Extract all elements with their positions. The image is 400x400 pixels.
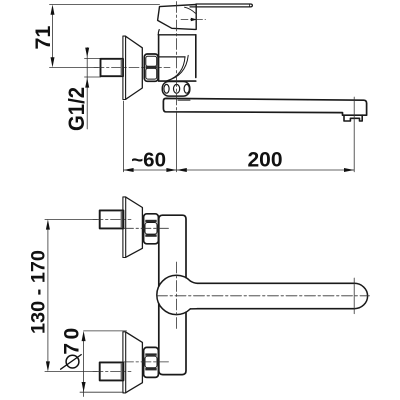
ball-to-spout fillet top	[190, 281, 197, 283]
neck/body separation line	[158, 34, 196, 36]
dimension 71 line	[52, 10, 54, 62]
cartridge body (upper view)	[159, 35, 196, 81]
neck below cap	[157, 30, 160, 35]
arrow right (~60)	[166, 168, 176, 172]
top nut facet band upper	[145, 220, 156, 222]
dim 130-170 arrow up	[46, 219, 50, 229]
top nut facet middle	[145, 223, 157, 235]
dimension 130-170 line	[47, 225, 49, 366]
bottom pipe center line	[45, 371, 97, 373]
G1/2 arrow down (to pipe top)	[85, 48, 89, 58]
pipe end band (upper view)	[121, 59, 124, 75]
pipe end band (top connection)	[121, 211, 124, 228]
top hex nut	[144, 214, 159, 244]
handle small arrow	[191, 18, 197, 22]
top escutcheon cone	[126, 197, 143, 257]
extension line pipe center (for dim 71)	[50, 67, 99, 69]
spout (upper view, side)	[163, 98, 366, 115]
arrow right (200)	[344, 168, 354, 172]
wall pipe G1/2 (upper view)	[101, 59, 124, 76]
bottom nut facet band upper	[145, 353, 156, 355]
svg-text:~60: ~60	[131, 149, 166, 172]
handle cap	[158, 5, 197, 30]
lever end tick	[249, 4, 251, 7]
svg-text:G1/2: G1/2	[64, 87, 89, 131]
dimension 71 arrow down	[51, 57, 55, 67]
collar ellipse right	[184, 84, 189, 93]
collar ellipse middle	[174, 84, 180, 93]
svg-text:70: 70	[61, 324, 84, 354]
hex nut (upper view)	[144, 54, 158, 81]
spout center line (dash-dot)	[157, 295, 370, 297]
dimension line ~60 / 200	[123, 169, 354, 171]
body center line vertical (dash-dot)	[175, 262, 177, 330]
bottom nut facet middle	[145, 356, 157, 368]
collar ring with screws (upper view)	[162, 82, 190, 97]
lever handle bar	[190, 4, 252, 7]
svg-text:71: 71	[31, 26, 55, 50]
arrow left (200)	[177, 168, 187, 172]
faucet center line vertical (dash-dot)	[176, 2, 178, 116]
top escutcheon flange	[123, 197, 126, 258]
ball joint (front view)	[157, 275, 190, 314]
extension line wall (x=123.4)	[122, 101, 124, 172]
hex nut middle band	[146, 66, 157, 68]
top connection: wall pipe	[100, 210, 124, 228]
top nut facet band lower	[145, 234, 156, 236]
diameter symbol circle	[66, 355, 79, 368]
ball-to-spout fillet bottom	[190, 308, 197, 310]
handle center dash mark	[181, 19, 206, 21]
spout end cap	[354, 283, 367, 308]
spout joint line	[178, 99, 190, 101]
escutcheon flange (upper view)	[123, 36, 126, 99]
body inner horizontal line	[159, 56, 185, 58]
svg-text:200: 200	[247, 148, 282, 171]
diameter symbol slash	[61, 355, 82, 370]
bottom escutcheon flange	[123, 332, 126, 393]
extension line spout end (x=354.2)	[353, 97, 355, 172]
bottom connection: wall pipe	[100, 362, 124, 380]
hex nut facets	[146, 56, 157, 66]
faucet body (front view)	[163, 215, 186, 277]
dim 130-170 arrow down	[46, 361, 50, 371]
body right lower / bottom / left lower	[159, 304, 186, 375]
body left upper	[159, 215, 163, 286]
arrow left (~60)	[123, 168, 133, 172]
G1/2 arrow up (to pipe bottom)	[85, 78, 89, 88]
bottom nut facet band lower	[145, 368, 156, 370]
bottom hex nut	[144, 347, 159, 377]
svg-text:130 - 170: 130 - 170	[29, 250, 50, 334]
top pipe center line	[45, 218, 97, 220]
dim O70 arrow down	[82, 382, 86, 392]
spout tube (front view)	[197, 283, 354, 308]
bottom escutcheon cone	[126, 332, 143, 393]
dimension O70 extension top	[84, 330, 127, 332]
collar ellipse left	[164, 84, 169, 93]
bottom connection center line	[124, 361, 170, 363]
handle cap arc detail	[185, 7, 196, 13]
aerator (upper view)	[344, 115, 362, 121]
dimension O70 line	[83, 336, 85, 397]
dim O70 arrow up	[82, 331, 86, 341]
spout root curve outer	[166, 55, 188, 81]
dimension 71 arrow up	[51, 5, 55, 15]
aerator edge line (front view)	[353, 278, 355, 314]
pipe end band (bottom connection)	[121, 363, 124, 380]
pipe center line (dash-dot)	[94, 67, 170, 69]
top connection center line	[124, 227, 170, 229]
escutcheon cone (upper view)	[126, 36, 143, 99]
G1/2 leader line	[86, 48, 88, 130]
spout root curve inner	[168, 57, 186, 81]
extension line top (lever top, for dim 71)	[50, 4, 160, 6]
G1/2 extension ticks	[85, 58, 101, 77]
dimension O70 extension bottom	[80, 391, 124, 393]
